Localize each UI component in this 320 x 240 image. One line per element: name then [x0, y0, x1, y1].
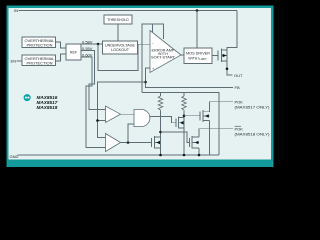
svg-text:IN: IN [14, 8, 18, 13]
box overthermal protection 1 [22, 37, 56, 48]
wire box2 to REF [56, 54, 67, 61]
wire box1 to REF [56, 42, 67, 48]
svg-text:OVERTHERMAL: OVERTHERMAL [25, 39, 55, 43]
box undervoltage lockout [103, 41, 138, 54]
wire NMOS A drain to POK1 [210, 102, 234, 112]
wire FET source to OUT [227, 50, 233, 75]
wire FB to comparators [98, 82, 146, 138]
transistor pass PMOS [218, 49, 227, 63]
wire FB line [146, 68, 234, 88]
svg-text:PROTECTION: PROTECTION [27, 43, 53, 47]
svg-text:MAX8518: MAX8518 [37, 105, 58, 110]
svg-text:OUT: OUT [234, 73, 243, 78]
resistor R1 [158, 93, 163, 156]
wire IN rail drop to MOS driver [196, 11, 198, 49]
Maxim logo [24, 94, 31, 101]
wire AND out to NMOS B gate [150, 117, 176, 123]
svg-text:PROTECTION: PROTECTION [27, 61, 53, 65]
svg-text:THRESHOLD: THRESHOLD [107, 18, 129, 22]
wire soft-start comb [142, 24, 164, 93]
wire IN rail [19, 10, 238, 12]
resistor R2 [182, 93, 187, 156]
box THRESHOLD [104, 15, 132, 24]
wire IN rail to pass FET drain [227, 11, 237, 51]
wire R1 to NMOS C drain and D gate [161, 132, 190, 143]
ground rail [18, 154, 220, 156]
wire NMOS A source to rail [209, 121, 211, 156]
wire branch to AND lower input [128, 124, 134, 143]
box MOS driver with ILIMIT [184, 48, 212, 64]
svg-text:GND: GND [10, 154, 19, 159]
wire NMOS D source [198, 148, 200, 155]
wire UVLO to error amp inverting input [138, 43, 151, 45]
svg-text:LOCKOUT: LOCKOUT [111, 48, 130, 52]
svg-text:MOS DRIVER: MOS DRIVER [186, 52, 210, 56]
wire REF out 2 to comp1 [81, 51, 106, 110]
wire comb tooth [152, 24, 154, 32]
transistor NMOS C [152, 136, 161, 149]
svg-text:OVERTHERMAL: OVERTHERMAL [25, 57, 55, 61]
transistor NMOS D [190, 136, 200, 149]
panel with teal border [7, 6, 274, 168]
svg-text:(MAX8518 ONLY): (MAX8518 ONLY) [235, 131, 271, 136]
junction dot comp1 input [96, 119, 99, 122]
junction dot B source [183, 154, 186, 157]
junction dot C source [159, 154, 162, 157]
wire NMOS D drain to POK2 [199, 129, 233, 137]
junction dot ref1 [97, 43, 100, 46]
wire FB branch comp1 [98, 120, 106, 122]
junction dot FB [144, 81, 147, 84]
wire driver to gate [212, 55, 218, 57]
wire comp2 out to NMOS C gate [121, 142, 152, 144]
svg-text:FB: FB [235, 85, 240, 90]
box REF [66, 44, 81, 60]
svg-text:REF: REF [70, 50, 78, 54]
wire ref1 loop under UVLO [98, 44, 138, 71]
wire THRESHOLD to UVLO [117, 24, 119, 41]
junction dot comp2 out [127, 141, 130, 144]
junction dot R2 bottom [183, 115, 186, 118]
junction dot R1 bottom [159, 131, 162, 134]
junction dot D source [198, 154, 201, 157]
junction dot OUT [226, 67, 229, 70]
transistor NMOS A [200, 110, 210, 122]
wire EN to box2 [17, 60, 23, 62]
comparator U2 [106, 106, 121, 123]
wire REF out 3 to comp2 [81, 57, 106, 148]
POK sub-block boundary [142, 93, 219, 156]
box overthermal protection 2 [22, 55, 56, 66]
comparator U3 [106, 134, 121, 152]
outer black mat [0, 0, 280, 171]
svg-text:(MAX8517 ONLY): (MAX8517 ONLY) [235, 105, 271, 110]
svg-text:EN: EN [11, 59, 17, 64]
wire comp1 out to AND [121, 113, 135, 115]
svg-text:WITH ILIMIT: WITH ILIMIT [188, 56, 207, 61]
wire REF out 1 to UVLO [81, 43, 103, 45]
junction dot on IN rail [196, 9, 199, 12]
op-amp error amp with soft-start [150, 31, 181, 73]
wire error amp output [181, 54, 184, 56]
wire R2/B-drain to NMOS A gate [184, 115, 200, 117]
transistor NMOS B [176, 117, 184, 129]
svg-text:SOFT-START: SOFT-START [151, 56, 176, 60]
svg-text:UNDERVOLTAGE: UNDERVOLTAGE [105, 43, 136, 47]
gate AND [134, 110, 150, 127]
